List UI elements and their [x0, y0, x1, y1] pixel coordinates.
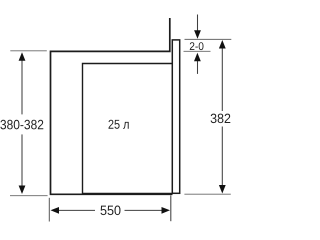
arrowhead up 380-382: [19, 52, 26, 61]
label 550: [101, 206, 121, 216]
dimension 2-0 extension line bottom: [184, 50, 211, 52]
dimension 550 extension line left: [48, 198, 50, 222]
dimension 2-0 / 382 shared extension line top: [185, 38, 232, 40]
appliance body 25 l: [83, 64, 173, 194]
label 382: [211, 114, 231, 124]
label 2-0: [190, 42, 204, 50]
dimension 2-0 arrow up: [197, 59, 199, 74]
dimension line 380-382: [21, 59, 23, 187]
cabinet niche outline: [51, 18, 173, 194]
dimension 2-0 arrow down: [197, 15, 199, 32]
arrowhead down 382: [219, 185, 226, 194]
label 25 l: [109, 120, 129, 129]
arrowhead left 550: [51, 207, 60, 214]
appliance front frame: [172, 40, 179, 193]
arrowhead right 550: [162, 207, 171, 214]
arrowhead down 380-382: [19, 186, 26, 195]
dimension line 550: [57, 209, 164, 211]
label 380-382: [0, 120, 43, 130]
dimension 380-382 extension line top: [10, 50, 47, 52]
dimension 550 extension line right: [170, 195, 172, 221]
dimension 382 extension line bottom: [184, 193, 230, 195]
arrowhead up 382: [219, 40, 226, 49]
dimension line 382: [221, 47, 223, 188]
dimension 380-382 extension line bottom: [10, 195, 48, 197]
